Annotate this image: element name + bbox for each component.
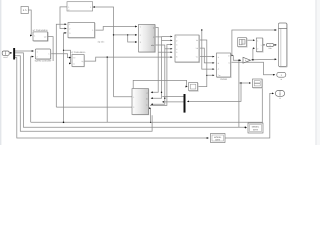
- wire: M out up to L in4: [198, 75, 215, 86]
- wire: L out1 to junction: [231, 54, 234, 56]
- wire: mux M1 out3 down loop to L131 and up into K2 bottom: [15, 56, 152, 132]
- wire: K2 left out1 riser to top block T: [114, 96, 132, 98]
- wire: E out3 down to K2 right in3: [151, 45, 165, 104]
- svg-text:Speed controller: Speed controller: [35, 60, 52, 63]
- wire: riser to J in1 long feedback: [232, 30, 277, 55]
- svg-text:Vc: Vc: [196, 55, 198, 58]
- junction (63.5,122.3): [63, 122, 65, 124]
- wire: mux N out2 left: [162, 96, 183, 98]
- wire: iq line drop to L122: [106, 57, 108, 122]
- wire: branch to iq calc D in2: [64, 50, 71, 63]
- tall block J: [279, 23, 288, 67]
- wire: E out1 down to K2 right in1: [151, 28, 158, 93]
- wire: riser x111: [93, 7, 113, 97]
- junction (231.9,55.4): [231, 55, 232, 56]
- wire: P1 out to outport K2b: [225, 93, 274, 138]
- big block F: [175, 35, 200, 63]
- svg-text:2: 2: [176, 39, 177, 42]
- svg-text:1: 1: [257, 39, 258, 42]
- svg-text:2: 2: [257, 47, 258, 50]
- wire: arrow into model info P2: [245, 127, 246, 129]
- svg-text:MODEL: MODEL: [252, 126, 260, 129]
- wire: Q bottom drop to L122: [261, 88, 264, 128]
- wire: mux M1 out to speed controller in1: [15, 50, 34, 52]
- speed controller block C: [35, 49, 52, 63]
- junction (107.2,57.1): [107, 56, 108, 57]
- wire: F out1 down joins M riser: [199, 40, 207, 75]
- wire: F in4 from E column: [165, 48, 172, 50]
- svg-text:1: 1: [176, 36, 177, 39]
- window right border line: [315, 0, 318, 145]
- wire: H out to oval I: [263, 44, 265, 46]
- canvas background: [0, 0, 320, 145]
- svg-text:c: c: [147, 104, 148, 107]
- svg-text:abc: abc: [151, 44, 154, 47]
- wire: K2 top trigger line to M in: [133, 80, 187, 88]
- window right border strip: [316, 0, 320, 145]
- wire: calc B out down: [48, 37, 54, 61]
- mux M1 bar: [13, 48, 15, 60]
- svg-text:INFO: INFO: [215, 138, 220, 141]
- wire: mux M1 out4 down loop L136 to model info P1: [15, 58, 209, 138]
- block S source inport: [2, 51, 9, 59]
- wire: into mux N from right: [187, 83, 241, 101]
- svg-text:b: b: [146, 97, 147, 100]
- wire: top block T out to U in2: [60, 7, 67, 29]
- wire: bottom feedback L122 speed line: [31, 121, 263, 123]
- gradient block K2 flipped: [132, 89, 149, 116]
- svg-text:dq-abc: dq-abc: [98, 40, 106, 43]
- outport K2b: [276, 91, 285, 100]
- svg-text:iq: iq: [82, 60, 84, 63]
- wire: L out2 to outport K1: [231, 62, 276, 74]
- junction (241,83): [240, 82, 241, 83]
- wire: F out2 down to L in2: [199, 48, 214, 63]
- model info P1: [211, 134, 226, 143]
- outport K1: [277, 72, 286, 81]
- svg-text:PMSM: PMSM: [220, 78, 227, 81]
- svg-text:2: 2: [133, 106, 134, 109]
- wire: E out2 down to K2 right in2: [151, 37, 162, 98]
- gradient block E: [139, 25, 156, 53]
- svg-text:is: is: [228, 62, 229, 65]
- wire: F in5 from E column: [158, 51, 172, 53]
- wire: K2 right out to F in3: [150, 45, 172, 106]
- small block Q: [253, 79, 263, 88]
- top block T flipped: [67, 2, 93, 12]
- wire: junction L122 up to subsystem U in3: [64, 33, 67, 122]
- junction (164.8,98.2): [164, 98, 165, 99]
- gain triangle: [243, 57, 251, 63]
- junction (92.6,7): [92, 6, 94, 8]
- svg-text:1: 1: [133, 96, 134, 99]
- wire: branch to E in3: [128, 35, 137, 42]
- svg-text:iq* Calculation: iq* Calculation: [71, 51, 86, 54]
- calc block B: [33, 29, 49, 41]
- wire: G out to H in1: [247, 39, 255, 41]
- wire: gain branch down to Q: [238, 60, 240, 127]
- svg-text:5: 5: [176, 51, 177, 54]
- svg-text:1: 1: [261, 44, 262, 47]
- junction (127.7,34.9): [127, 34, 128, 35]
- wire: oval I to J in2: [274, 44, 277, 46]
- wire: block A to calc B input: [28, 10, 32, 36]
- block A constant: [21, 7, 28, 14]
- junction (113.5,34.9): [113, 34, 114, 35]
- junction (201.8,30): [201, 29, 202, 30]
- wire: mux N out left to K2: [162, 101, 183, 103]
- wire: gain out to J in3: [253, 58, 277, 61]
- iq calc block D: [71, 51, 86, 67]
- junction (238.9,60.2): [238, 60, 239, 61]
- wire: iq calc D out to F in6: [84, 57, 172, 61]
- wire: F in2 from E column: [162, 39, 173, 41]
- wire: Q input: [239, 82, 251, 84]
- wire: F out3 to L in1: [199, 56, 214, 58]
- mux N bar: [184, 94, 186, 113]
- svg-text:Vb: Vb: [196, 47, 198, 50]
- svg-text:w* Calculation: w* Calculation: [33, 29, 49, 32]
- junction (252.9,59.8): [252, 59, 254, 61]
- wire: K2 right out2 down to L122: [149, 108, 152, 122]
- window left border: [0, 0, 1, 145]
- svg-text:Tm: Tm: [218, 74, 221, 77]
- junction (149.6,108.2): [149, 107, 151, 109]
- small block M: [189, 83, 199, 92]
- narrow block H: [256, 38, 263, 52]
- wire: F in1 from E column: [162, 36, 173, 38]
- svg-text:wref: wref: [3, 56, 8, 59]
- wire: mux M1 out2 down left loop to bottom line L127: [15, 53, 245, 127]
- subsystem block U: [68, 23, 105, 44]
- block L: [217, 53, 232, 81]
- oval block I: [266, 43, 273, 50]
- svg-text:6: 6: [176, 55, 177, 58]
- wire: gain out up to H in2: [253, 48, 255, 60]
- junction (63.5,50.2): [63, 50, 64, 51]
- junction (206.8,75.3): [206, 75, 207, 76]
- junction (161.5,92.3): [161, 92, 162, 93]
- wire: gain out junction: [251, 59, 253, 61]
- svg-text:INFO: INFO: [253, 129, 258, 132]
- junction (150.6,122.3): [150, 122, 151, 123]
- wire: feedback drop to L in3: [202, 30, 214, 69]
- wire: K2 left out2 feedback to U in1: [56, 106, 132, 108]
- wire: feedback riser to U in1: [56, 24, 66, 107]
- wire: speed controller out to iq calc D in1: [51, 54, 71, 58]
- scope block G: [238, 38, 248, 48]
- wire: U out to E in1: [95, 27, 138, 31]
- wire: source S to mux M1: [9, 52, 12, 54]
- wire: branch to E in2: [114, 34, 138, 36]
- svg-text:1.5: 1.5: [23, 9, 27, 12]
- svg-text:4: 4: [176, 48, 177, 51]
- wire: L122 up into speed controller in2: [31, 57, 34, 123]
- svg-text:3: 3: [176, 44, 177, 47]
- junction (245.3,127.3): [245, 127, 247, 129]
- model info P2: [248, 123, 263, 133]
- wire: drop to gain input: [233, 55, 241, 60]
